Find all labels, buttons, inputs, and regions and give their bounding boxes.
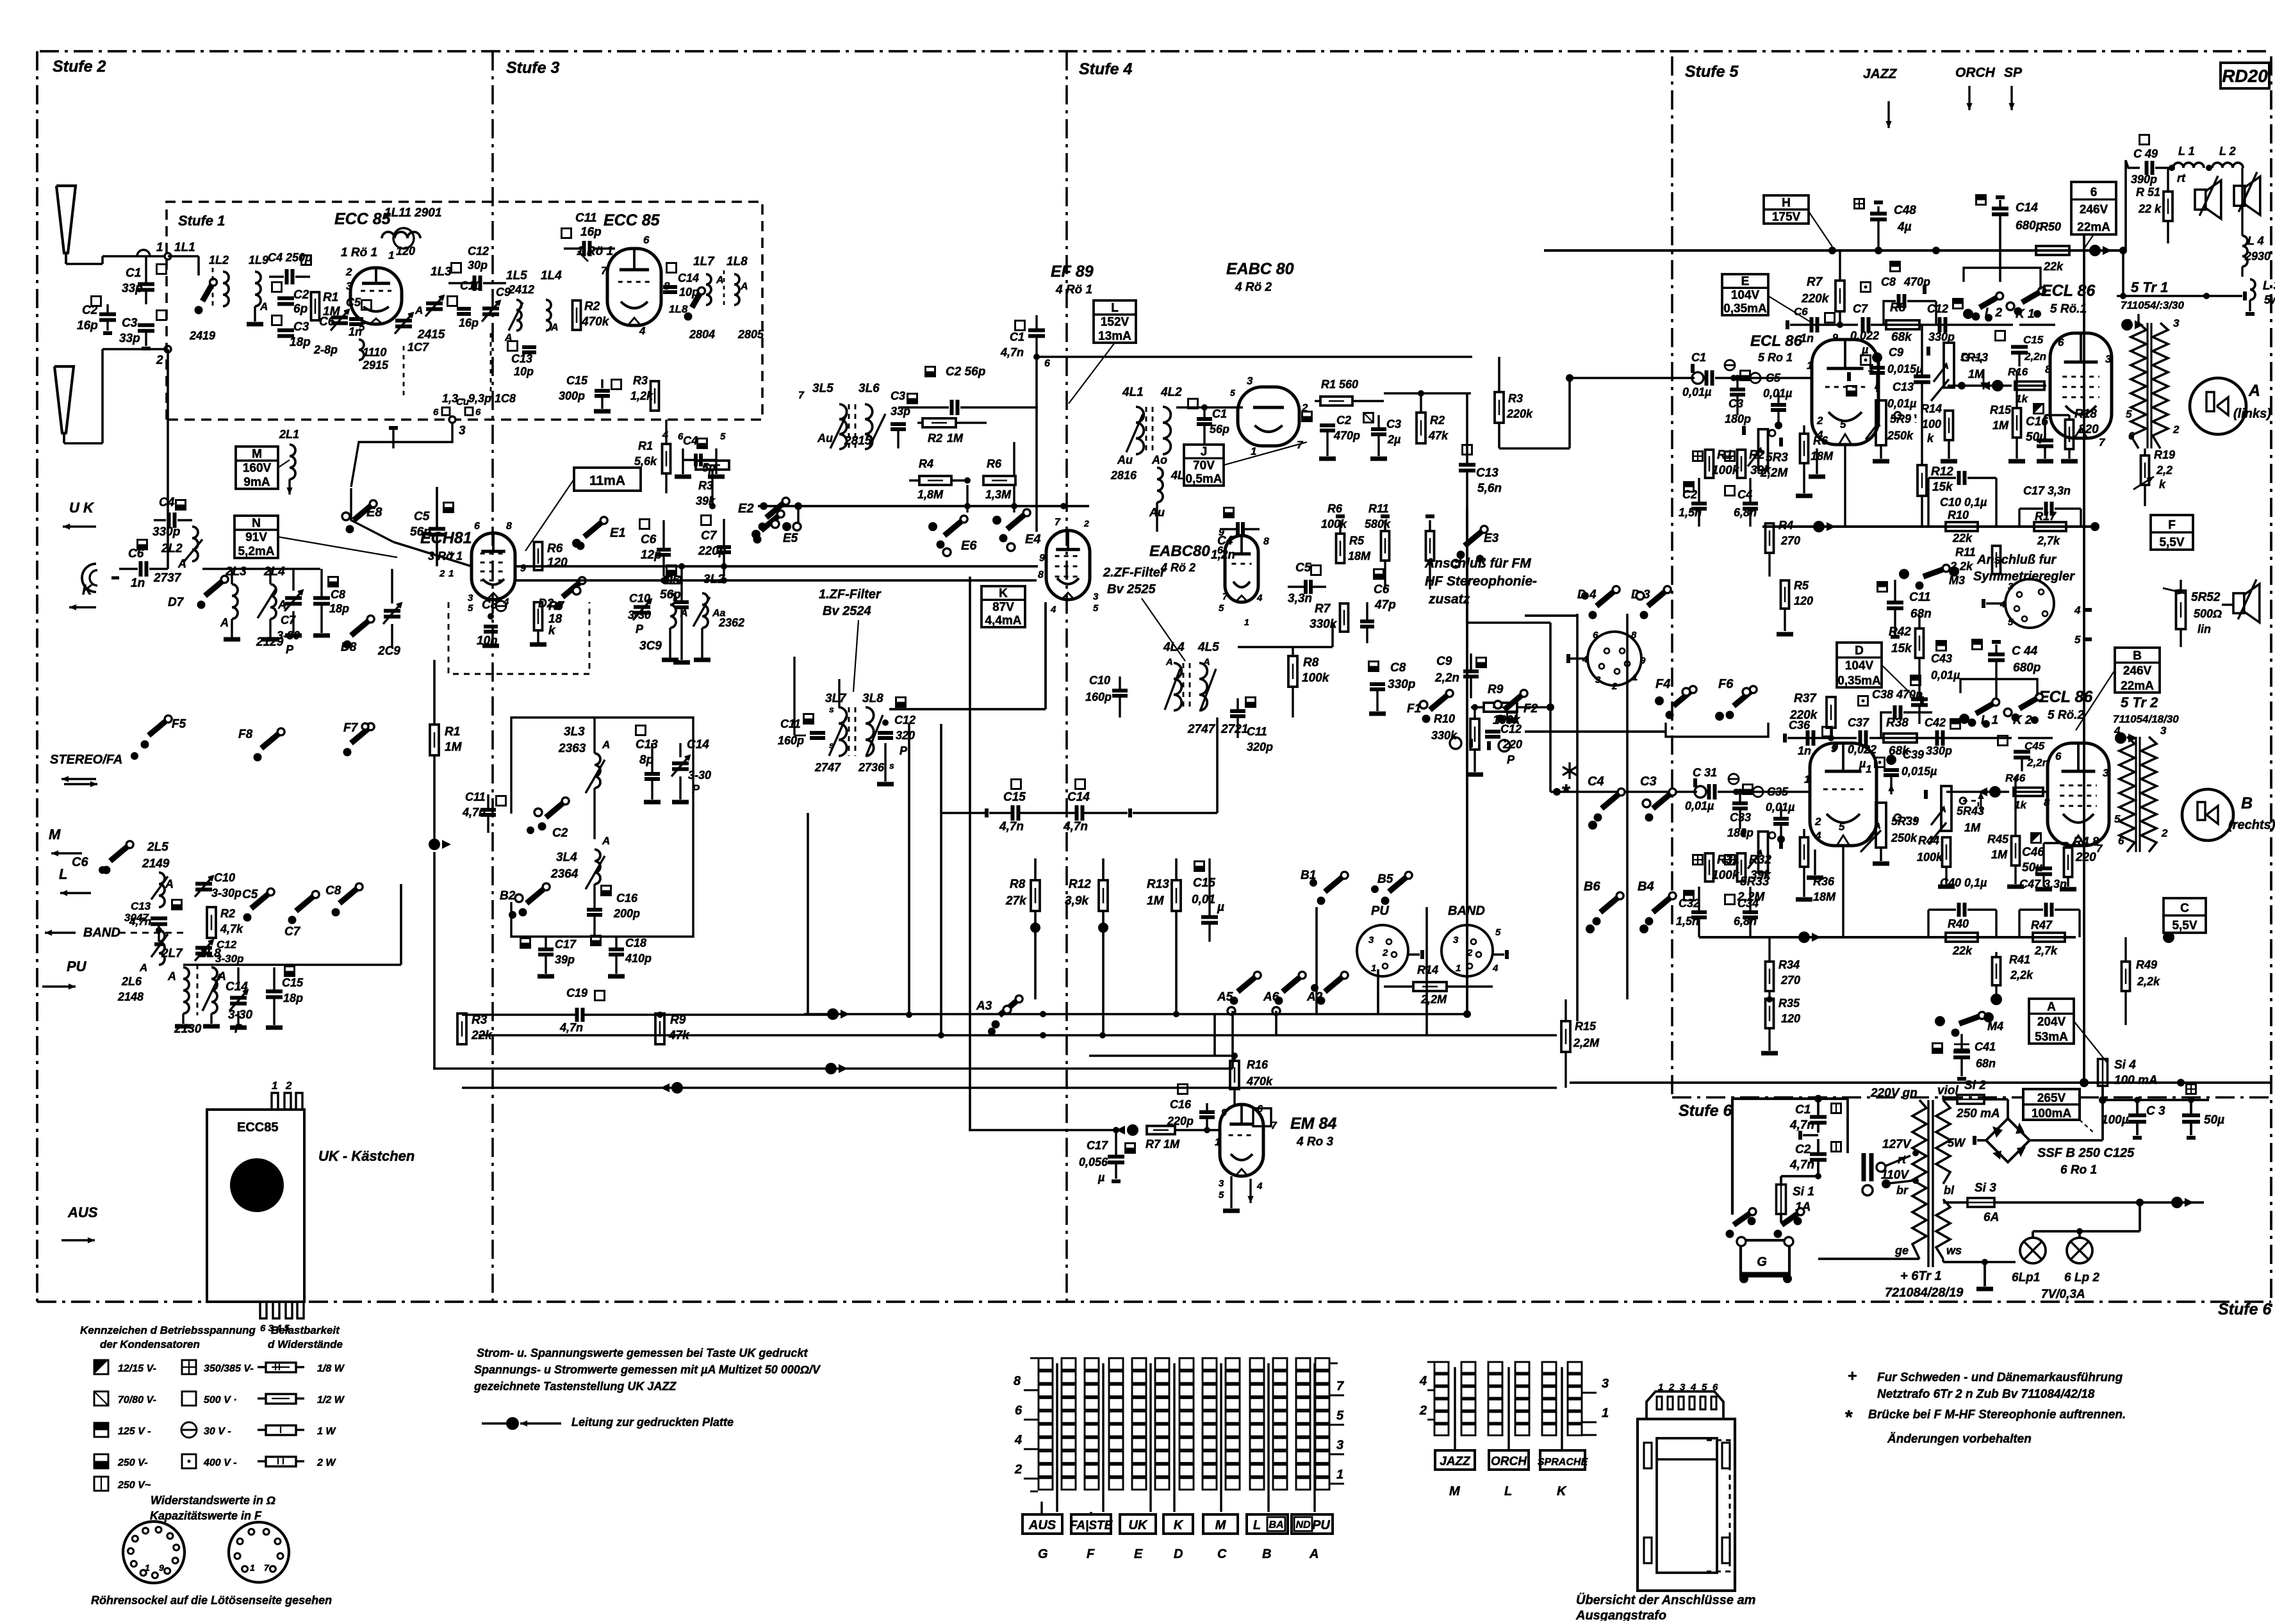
svg-text:120: 120: [1794, 595, 1813, 607]
switch C5: [242, 888, 274, 922]
svg-text:56p: 56p: [660, 588, 681, 602]
svg-text:C15: C15: [566, 374, 588, 387]
pot 5R33 2,2M: [1737, 828, 1781, 904]
switch K1 contact: [2007, 288, 2046, 322]
switch matrix left ticks: [1014, 1358, 1038, 1491]
svg-text:Änderungen vorbehalten: Änderungen vorbehalten: [1887, 1432, 2032, 1446]
svg-text:Strom- u. Spannungswerte gemes: Strom- u. Spannungswerte gemessen bei Ta…: [477, 1347, 808, 1359]
switch B5: [1371, 872, 1412, 905]
svg-text:4 Rö 2: 4 Rö 2: [1160, 561, 1195, 574]
svg-text:12/15 V-: 12/15 V-: [118, 1363, 156, 1374]
vertical wire x1261: [807, 813, 809, 1015]
svg-text:6: 6: [2118, 835, 2124, 847]
svg-text:8: 8: [506, 521, 512, 532]
svg-text:1: 1: [1371, 963, 1376, 974]
svg-text:2L6: 2L6: [121, 975, 142, 988]
svg-text:Au: Au: [817, 432, 833, 445]
svg-text:8: 8: [1038, 570, 1044, 580]
svg-text:6: 6: [1593, 630, 1598, 641]
svg-text:B: B: [1262, 1547, 1271, 1561]
svg-text:C10: C10: [214, 871, 235, 884]
svg-text:C3: C3: [1729, 397, 1743, 410]
wire long y1698: [462, 1082, 1557, 1094]
switch E2: [738, 498, 801, 539]
wire 3L7 out y1107: [889, 602, 1046, 709]
svg-text:R5: R5: [1794, 579, 1809, 592]
svg-text:1L1: 1L1: [174, 241, 195, 254]
coil 2L5 2149: [124, 841, 174, 933]
svg-text:R2: R2: [1430, 414, 1445, 427]
svg-text:JAZZ: JAZZ: [1863, 67, 1898, 81]
svg-text:5R52: 5R52: [2191, 591, 2221, 604]
svg-text:C2: C2: [1682, 488, 1697, 501]
svg-text:8: 8: [1014, 1374, 1021, 1388]
svg-text:K: K: [999, 587, 1008, 600]
socket FM circle: [1568, 630, 1646, 692]
svg-text:C11: C11: [575, 211, 596, 225]
svg-text:2: 2: [1382, 947, 1388, 958]
svg-text:C41: C41: [1975, 1040, 1996, 1053]
svg-text:A: A: [602, 739, 610, 751]
svg-text:C8: C8: [1390, 661, 1406, 675]
tube socket 9pin: [123, 1521, 185, 1583]
fuse Si2 250mA: [1943, 1079, 2008, 1120]
svg-text:330p: 330p: [1928, 331, 1955, 343]
svg-text:3: 3: [1680, 1382, 1686, 1393]
voltage box H 175V: [1764, 195, 1832, 247]
svg-text:5,2mA: 5,2mA: [238, 545, 274, 559]
svg-text:3L5: 3L5: [812, 382, 834, 395]
svg-text:1,5n: 1,5n: [1676, 915, 1699, 928]
svg-text:0,015µ: 0,015µ: [1887, 363, 1923, 375]
capacitor C6 1n input: [119, 540, 168, 591]
capacitor C38 470p: [1872, 676, 1932, 739]
svg-text:G: G: [1038, 1547, 1048, 1561]
svg-text:C5: C5: [346, 296, 361, 309]
svg-text:3: 3: [1336, 1438, 1343, 1452]
resistor R13 1M: [1147, 858, 1181, 1014]
svg-text:R2: R2: [584, 300, 600, 313]
resistor R45 1M: [1987, 776, 2024, 887]
svg-text:68n: 68n: [1910, 607, 1932, 621]
coil 3L1 + C10: [628, 574, 688, 636]
capacitor C6 12p: [640, 520, 671, 577]
svg-text:bl: bl: [1944, 1184, 1955, 1197]
svg-text:2412: 2412: [508, 283, 534, 296]
svg-text:0,01µ: 0,01µ: [1931, 669, 1960, 682]
resistor R3 1,2k: [630, 374, 659, 411]
svg-text:A: A: [165, 878, 174, 890]
label EABC80 second: [1149, 543, 1210, 574]
svg-text:0,01: 0,01: [1192, 893, 1215, 906]
svg-text:2816: 2816: [1110, 469, 1137, 482]
AVC wire y557: [1037, 356, 1472, 358]
svg-text:3: 3: [1219, 1178, 1224, 1189]
svg-text:ECH81: ECH81: [420, 529, 472, 547]
lamp 6Lp2: [2067, 1238, 2092, 1263]
legend werte: [150, 1494, 275, 1522]
svg-text:100mA: 100mA: [2032, 1107, 2072, 1120]
svg-text:3L6: 3L6: [858, 382, 880, 395]
svg-text:M: M: [49, 826, 61, 842]
svg-text:1L8: 1L8: [669, 303, 688, 315]
svg-text:4: 4: [1690, 1382, 1696, 1393]
svg-text:5,5V: 5,5V: [2172, 919, 2197, 933]
svg-text:4,7n: 4,7n: [1000, 346, 1024, 359]
capacitor C2 1,5n s5: [1679, 478, 1707, 527]
antenna dipole upper: [56, 186, 76, 264]
svg-text:ECC 85: ECC 85: [604, 211, 661, 229]
svg-text:6: 6: [1015, 1404, 1023, 1418]
capacitor C44 680p: [1973, 640, 2041, 699]
wire x1896 down: [1213, 1014, 1216, 1056]
dc rail y1717: [2103, 1097, 2209, 1103]
grid stopper to tube A: [1734, 359, 1812, 378]
loop F4F6: [1666, 723, 1768, 737]
svg-text:3: 3: [2105, 353, 2112, 365]
svg-text:C3: C3: [891, 390, 905, 402]
svg-text:2: 2: [285, 1079, 292, 1092]
svg-text:4: 4: [1419, 1374, 1427, 1388]
wire C49 loop: [2124, 160, 2127, 250]
capacitor C34 6,8n: [1725, 887, 1759, 937]
svg-text:R19: R19: [2154, 448, 2175, 461]
svg-text:3-30: 3-30: [628, 609, 651, 621]
svg-text:R6: R6: [547, 542, 563, 555]
switch E4: [992, 509, 1040, 551]
svg-text:1C7: 1C7: [407, 341, 429, 354]
capacitor C11 68n s5: [1878, 580, 1932, 637]
capacitor C14 10p: [663, 263, 699, 316]
svg-text:N: N: [252, 517, 261, 530]
wire top stufe3 row: [758, 502, 1089, 523]
svg-text:C13: C13: [131, 900, 151, 912]
svg-text:7: 7: [1055, 517, 1061, 528]
resistor R7 330k stufe4: [1310, 602, 1349, 632]
svg-text:6: 6: [643, 234, 650, 246]
svg-text:C3: C3: [1386, 418, 1401, 431]
svg-text:R8: R8: [1303, 656, 1319, 669]
svg-text:2C9: 2C9: [377, 644, 400, 658]
svg-text:2930: 2930: [2244, 250, 2271, 263]
svg-text:4: 4: [639, 325, 646, 337]
capacitor C17 33n s5: [2019, 484, 2081, 527]
capacitor C2 6p: [272, 283, 309, 316]
svg-text:C12: C12: [1927, 302, 1948, 315]
svg-text:265V: 265V: [2037, 1092, 2066, 1105]
svg-text:ECL 86: ECL 86: [2041, 282, 2096, 300]
capacitor C4 330p: [152, 496, 192, 539]
svg-text:Stufe 4: Stufe 4: [1079, 60, 1132, 78]
tube ECC85 triode b: [601, 234, 670, 337]
svg-text:R11: R11: [1368, 502, 1389, 515]
svg-text:7: 7: [798, 390, 805, 401]
svg-text:2: 2: [1419, 1404, 1427, 1418]
resistor R14 2,2M: [1384, 964, 1493, 1006]
svg-text:Stufe 1: Stufe 1: [178, 213, 225, 229]
svg-text:1M: 1M: [1991, 848, 2008, 861]
svg-text:G: G: [1757, 1255, 1767, 1269]
svg-text:330k: 330k: [1310, 618, 1338, 631]
capacitor C11 4,7n stufe3: [462, 791, 506, 833]
switch E8: [342, 500, 382, 534]
svg-text:AUS: AUS: [1028, 1518, 1056, 1532]
svg-text:C1: C1: [1010, 331, 1024, 343]
svg-text:R16: R16: [2008, 366, 2028, 378]
svg-text:5w: 5w: [2264, 293, 2275, 306]
pot 5R52: [2163, 580, 2222, 647]
resistor R34 270: [1766, 937, 1801, 1003]
svg-text:5,5V: 5,5V: [2159, 536, 2184, 550]
svg-text:8: 8: [2044, 796, 2050, 808]
svg-text:C 49: C 49: [2133, 147, 2158, 160]
svg-text:A: A: [2047, 1001, 2056, 1014]
svg-text:EF 89: EF 89: [1051, 263, 1094, 281]
star bridge mark: [1562, 762, 1577, 805]
switch D2: [538, 577, 586, 611]
svg-text:500 V ·: 500 V ·: [204, 1395, 237, 1406]
svg-text:3C9: 3C9: [639, 639, 662, 653]
svg-text:R15: R15: [1575, 1020, 1597, 1033]
svg-text:15k: 15k: [1932, 480, 1953, 494]
wire IF out: [1238, 623, 1333, 647]
key FA/STE: [1070, 1512, 1113, 1534]
svg-text:30p: 30p: [468, 259, 488, 272]
capacitor C3 33p stufe3: [891, 390, 917, 448]
svg-text:C34: C34: [1737, 897, 1759, 910]
svg-text:16p: 16p: [459, 316, 479, 329]
key UK: [1120, 1514, 1156, 1534]
svg-text:7V/0,3A: 7V/0,3A: [2041, 1288, 2085, 1301]
wire AVC left: [941, 718, 1217, 813]
capacitor C1 4,7n stufe4: [1000, 315, 1045, 359]
capacitor C47 33n: [2019, 878, 2080, 937]
resistor R1 560: [1315, 378, 1384, 406]
5pin socket sym: [1983, 579, 2054, 628]
resistor R49 2,2k: [2122, 937, 2161, 1025]
svg-text:68n: 68n: [1976, 1057, 1996, 1070]
svg-text:C 44: C 44: [2012, 644, 2038, 658]
legend sq 70/80V: [94, 1391, 156, 1406]
transformer 6Tr1 sec upper: [1936, 1100, 1966, 1184]
left bank verticals2: [1677, 723, 1678, 779]
label bl: [1944, 1184, 1955, 1197]
svg-text:R38: R38: [1886, 716, 1909, 730]
svg-text:+: +: [1848, 1367, 1857, 1385]
resistor R6 100k top: [1321, 502, 1390, 589]
switch F7: [343, 721, 375, 757]
svg-text:Kennzeichen d Betriebsspannung: Kennzeichen d Betriebsspannung: [80, 1324, 256, 1336]
svg-text:4,7n: 4,7n: [999, 820, 1024, 833]
resistor R35 120: [1761, 997, 1800, 1053]
transformer 6Tr1 core: [1928, 1100, 1933, 1267]
wire long y1584: [462, 1012, 833, 1018]
pot 5R39 250k: [1860, 791, 1919, 864]
svg-text:5,6k: 5,6k: [634, 455, 657, 468]
svg-text:470p: 470p: [1333, 429, 1360, 442]
coil 2L7: [161, 947, 192, 1026]
svg-text:Au: Au: [1117, 454, 1133, 466]
wire bottom switch bank: [1233, 1013, 1467, 1015]
svg-text:A: A: [1165, 657, 1173, 668]
antenna dipole lower: [54, 366, 74, 443]
svg-text:3 Rö 1: 3 Rö 1: [428, 550, 463, 562]
coil 3L4 2364: [550, 835, 610, 898]
svg-text:2362: 2362: [718, 616, 744, 629]
label Stufe 6 bottom: [2218, 1300, 2272, 1318]
svg-text:0,056: 0,056: [1079, 1156, 1108, 1169]
switch E3: [1452, 526, 1499, 568]
svg-text:Röhrensockel auf die Lötösens: Röhrensockel auf die Lötösenseite gesehe…: [91, 1594, 332, 1607]
svg-text:10p: 10p: [514, 365, 534, 378]
svg-text:160V: 160V: [243, 462, 272, 475]
border frame right: [2270, 56, 2272, 1308]
svg-text:0,01µ: 0,01µ: [1682, 386, 1712, 398]
voltage box D 104V: [1837, 643, 1916, 698]
capacitor C9 2,2n: [1434, 653, 1486, 698]
capacitor C2 470p: [1302, 401, 1361, 459]
svg-text:C2: C2: [82, 304, 98, 317]
svg-text:9: 9: [159, 1562, 164, 1573]
svg-text:UK - Kästchen: UK - Kästchen: [318, 1148, 415, 1164]
svg-text:d Widerstände: d Widerstände: [268, 1338, 343, 1350]
svg-text:2: 2: [2172, 423, 2180, 436]
EM84 cathode gnd: [1223, 1176, 1254, 1211]
label Anschluss Symmetrieregler: [1973, 553, 2075, 584]
capacitor C12 320P: [877, 698, 916, 785]
legend sq 250Vac: [94, 1477, 151, 1491]
label EF89: [1051, 263, 1094, 297]
svg-text:4,4mA: 4,4mA: [985, 614, 1021, 628]
legend res 2W: [258, 1457, 336, 1468]
EM84 section R16: [1089, 1053, 1273, 1106]
svg-text:ws: ws: [1946, 1244, 1962, 1257]
capacitor C13 8p: [636, 726, 661, 803]
switch A3: [976, 996, 1023, 1035]
svg-text:R1: R1: [638, 439, 653, 452]
long vertical from G box: [2094, 255, 2096, 527]
svg-text:Si 1: Si 1: [1793, 1185, 1814, 1199]
svg-text:A5: A5: [1217, 990, 1233, 1004]
wire C2 to Si1: [1781, 1176, 1818, 1184]
voltage box N 91V: [234, 516, 397, 559]
svg-text:0,5mA: 0,5mA: [1185, 473, 1222, 486]
svg-text:C1: C1: [1212, 407, 1227, 420]
svg-text:0,015µ: 0,015µ: [1901, 765, 1937, 778]
note schweden: [1848, 1367, 2123, 1401]
svg-text:8: 8: [1631, 630, 1637, 641]
svg-text:C7: C7: [1853, 302, 1868, 315]
capacitor C48 4u: [1855, 199, 1917, 251]
border frame top: [40, 50, 2271, 53]
svg-text:C47 3,3n: C47 3,3n: [2019, 878, 2067, 890]
legend sq 12/15V: [94, 1360, 156, 1374]
svg-text:3: 3: [346, 280, 352, 292]
svg-text:300p: 300p: [559, 390, 585, 402]
coil L3 5w: [2246, 279, 2275, 314]
coil 3L3 2363: [558, 718, 610, 839]
resistor R14 100k s5: [1921, 388, 1957, 461]
grid stopper to tube B: [1736, 773, 1810, 792]
svg-text:R8: R8: [1010, 878, 1026, 891]
capacitor C16 220p EM84: [1167, 1085, 1215, 1134]
svg-text:2,2k: 2,2k: [2010, 969, 2033, 981]
resistor R12 15k s5: [1918, 400, 1953, 527]
svg-text:A: A: [1309, 1547, 1318, 1561]
svg-text:3-30: 3-30: [688, 769, 711, 782]
svg-text:33p: 33p: [122, 282, 143, 295]
B+ rail y391: [1544, 246, 2121, 255]
capacitor C12 330p s5: [1927, 299, 1963, 344]
svg-text:PU: PU: [1371, 904, 1389, 918]
svg-text:R7 1M: R7 1M: [1146, 1138, 1180, 1151]
svg-text:2.ZF-Filter: 2.ZF-Filter: [1103, 566, 1166, 580]
tube ECH81: [439, 521, 526, 614]
capacitor C3 18p stufe1: [272, 316, 311, 350]
resistor R31 100k: [1693, 853, 1740, 882]
svg-text:39k: 39k: [1750, 464, 1771, 477]
magic circle B rechts: [2182, 789, 2275, 841]
svg-text:C17: C17: [1087, 1139, 1108, 1152]
switch F8: [238, 728, 284, 762]
divider Stufe3/4: [1065, 51, 1068, 1302]
label 220V gn: [1870, 1087, 1918, 1100]
wire y1583 mid: [804, 1008, 1467, 1020]
svg-text:50µ: 50µ: [2022, 861, 2042, 874]
svg-text:µ: µ: [1861, 343, 1869, 356]
switch B4: [1638, 880, 1676, 933]
svg-text:R3: R3: [633, 374, 648, 387]
resistors R10 R11 block: [1928, 471, 2001, 574]
svg-text:K: K: [82, 582, 94, 598]
svg-text:5 Rö.1: 5 Rö.1: [2050, 302, 2087, 316]
svg-text:C4: C4: [683, 434, 698, 447]
voltage box C 55V: [2164, 898, 2206, 933]
svg-text:2805: 2805: [737, 328, 764, 341]
small matrix ticks: [1419, 1362, 1609, 1435]
key L BA: [1247, 1514, 1288, 1534]
svg-text:2: 2: [1611, 681, 1618, 692]
svg-text:C13: C13: [636, 738, 658, 751]
switch F4: [1525, 677, 1696, 732]
pot 5R3 2,2M: [1744, 426, 1788, 480]
resistor R10 330k: [1431, 704, 1483, 775]
label ECL86 A: [1750, 332, 1803, 364]
fuse Si4 100mA: [2098, 1058, 2158, 1104]
svg-text:(rechts): (rechts): [2228, 818, 2275, 832]
svg-text:Ao: Ao: [1151, 454, 1167, 466]
svg-text:1n: 1n: [1798, 744, 1811, 757]
svg-text:D: D: [1855, 644, 1864, 658]
svg-text:C5: C5: [1295, 561, 1311, 575]
Stufe1 dashed box: [167, 202, 762, 420]
svg-text:4 Ro 3: 4 Ro 3: [1296, 1135, 1333, 1149]
svg-text:711054/18/30: 711054/18/30: [2113, 713, 2179, 725]
svg-text:A: A: [217, 970, 226, 983]
svg-text:L 3: L 3: [2263, 279, 2275, 293]
svg-text:2,2n: 2,2n: [2026, 757, 2049, 769]
svg-text:250 V-: 250 V-: [117, 1457, 148, 1468]
capacitor C5 56p 2: [660, 566, 690, 663]
svg-text:1: 1: [1804, 773, 1810, 785]
trimmer C10 3-30p: [195, 871, 242, 899]
svg-text:k: k: [2159, 478, 2166, 491]
svg-text:U K: U K: [69, 500, 95, 516]
svg-text:1M: 1M: [947, 432, 964, 445]
transformer 6Tr1 sec lower: [1936, 1199, 1950, 1259]
svg-text:6,8n: 6,8n: [1734, 915, 1757, 928]
vertical x676 lower: [433, 852, 436, 1069]
